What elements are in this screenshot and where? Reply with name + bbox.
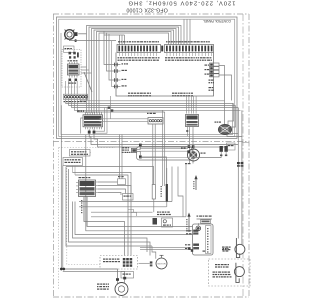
terminal strip TS2 pin labels [165,57,212,61]
buzzer B1 wire down b [227,110,242,244]
wire bus mid 1 [66,100,234,104]
wire CN6 label rot [81,200,82,213]
wire bus top [80,100,224,101]
wire bus lower c [84,197,125,256]
switch SW4 [113,85,127,89]
terminal strip TS2 pin leads [167,53,212,57]
wire M3 from loops [152,246,156,259]
wire divider cross a [119,135,121,179]
connector CN5 left wires [100,119,149,122]
remote P2 [234,263,244,283]
wire CN6 right 4 [98,193,121,196]
wire bundle top 6 [99,33,169,113]
dark pad SB2 [153,218,158,225]
connector CN2 top pins [86,112,102,115]
terminal strip TS2 outline [165,45,214,53]
wire tap into relay box 1 [81,66,87,68]
connector CN3 wire right a [219,66,225,125]
wire bus lower g [79,201,172,203]
buzzer B1 body [218,125,231,135]
label 24WR [157,212,171,216]
connector CN4 third lead [186,127,188,137]
wire mid vert a [171,167,173,202]
wire DS1 pads [188,247,193,252]
connector CN6 label [79,177,91,178]
wire loop lower 1 [73,173,132,256]
board bottom text left [128,93,151,97]
terminal strip TS2 top labels [166,41,210,42]
wire LB2 down b [74,166,76,176]
wire drop group1 e [121,35,123,45]
board bottom text right [172,93,193,97]
wires relay to pin strip [66,81,78,95]
sheet border right outer [248,14,250,297]
wire bus mid 5 [77,100,164,113]
small rect above relay box [64,46,75,52]
wire loop lower 4 [66,167,152,247]
fuse F1 dark bar [166,168,168,207]
wire drop group1 a [104,31,113,65]
wire bus lower d [91,216,186,218]
wire bundle top 2 [89,27,179,113]
wire CN6 down b [86,197,88,227]
connector CN5 label [147,113,156,114]
wire CN6 right 2 [98,186,131,194]
motor M1 inner ring [67,32,72,37]
door switch DS1 stub row A [186,230,198,235]
label hinge [197,216,213,220]
small box HB1 [118,176,126,185]
sheet border right inner [242,14,244,297]
svg-text:OFG-32X C1000: OFG-32X C1000 [126,6,168,12]
title line 1 [127,0,235,6]
wire CN2 pads to bus b [95,108,107,134]
wire tap into relay box 3 [81,72,92,74]
wire loop lower 6 [73,202,148,253]
wire vert mid d [162,110,164,186]
wire DS1 feed a [140,248,189,250]
wire LB2 down a [72,166,74,173]
wire M2 right [192,157,221,159]
wire loop inside box [61,33,233,135]
label box LB1 [70,150,91,157]
terminal strip TS1 pin labels [118,57,160,61]
motor M1 brush ticks [65,30,75,40]
control panel box outer [57,17,238,139]
label box LB2 [63,158,83,166]
motor M3 body [156,258,167,269]
connector CN2 bottom pins [86,127,102,130]
switch SW3 [113,78,126,82]
connector CN3 rows [210,63,220,77]
wire CN8 corner marks [128,210,137,217]
wire bottom junction b [63,271,125,277]
motor M2 body [188,149,200,161]
connector CN4 body [186,115,199,127]
wire LB1 right [90,152,91,154]
control panel label [203,19,231,23]
motor M1 outer ring [65,30,75,40]
wire CN4 into lower [190,148,194,164]
wire hinge to pin [198,223,200,225]
connector CN2 down leads [89,129,94,131]
remote box label2 [213,272,232,278]
sheet border left [53,14,55,297]
diagonal wire [84,72,92,92]
remote box label [215,264,229,268]
wire bus mid 3 [72,100,239,108]
wire drop group1 g [112,41,114,87]
pump M4 body [115,283,128,296]
wire CN4 down b [192,130,194,146]
connector CN4 lower pads [188,145,195,148]
thermistor TH1 outline [152,185,155,200]
pump M4 top lead [118,279,125,284]
thermal fuse TF1 label [122,147,131,153]
terminal strip TS1 pin leads [119,53,156,57]
motor M2 pad [187,150,190,153]
pin strip PS1 labels [64,101,87,102]
connector CN3 wire right b [219,75,232,101]
buzzer B1 wire up a [228,104,234,125]
svg-text:120V, 220-240V 50/60Hz, 3HG: 120V, 220-240V 50/60Hz, 3HG [127,0,235,6]
terminal strip TS1 top labels [118,41,159,42]
pump M4 pads [116,277,126,281]
wire bundle top 1 [87,26,182,114]
buzzer B1 label [215,122,222,123]
thermistor TH1 wires [153,199,155,212]
wire drop ctrl a [183,19,185,44]
connector CN2 loop wire [81,118,83,134]
wire DS1 feed b [140,250,192,251]
wire CN6 down a [83,197,85,222]
svg-text:MOTOR: MOTOR [157,264,166,266]
junction box RB1 [227,143,236,150]
connector small CN7 [220,146,228,158]
connector CN6 body [79,180,96,197]
dotted boundary lower left [59,148,115,291]
motor M3 top tick [160,255,164,257]
relay K1 bottom pins [70,75,78,78]
small box HB2 [123,194,134,201]
dotted boundary pump box [67,168,100,265]
wire tap into relay box 2 [81,69,89,71]
terminal strip TS1 outline [117,45,161,53]
fuse F1 label [161,186,162,197]
junction dot B [63,268,65,270]
pump M4 label [97,284,109,290]
connector CN5 down wires [153,124,155,185]
door switch DS1 earth mark [203,251,206,252]
wire mid vert c [185,164,187,217]
sheet border top [53,13,249,15]
motor M1 terminal pad [75,32,78,36]
buzzer B1 wire down a [230,108,239,239]
heater assembly body [137,147,193,161]
connector CN6 right pins [96,182,99,193]
small box SB1 [162,218,173,227]
wire drop group1 f [124,35,126,45]
switch SW1 [113,63,128,67]
junction dot A [60,268,62,270]
relay K1 top pins [70,62,78,64]
door switch DS1 inner rect [206,226,212,254]
wire mid vert b [178,167,183,217]
board right text [209,80,215,91]
door switch DS1 wires left [192,231,195,235]
wire loop lower 5 [69,169,151,256]
door switch DS1 stub row B [185,244,199,250]
wire left long 1 [60,105,62,269]
wire bottom junction a [61,269,117,278]
wire bus lower e [91,211,153,213]
door switch DS1 pin circle [196,226,201,231]
heater coil lines [140,149,189,158]
connector CN4 bottom pins [190,127,194,130]
remote assy P1 [235,238,245,258]
thermal fuse TF1 pad bottom [139,155,142,158]
motor M3 left pads [150,261,153,266]
remote dashed box [209,259,251,286]
section divider [53,141,249,143]
motor M1 junction dot [75,40,77,42]
connector CN4 junction dot [186,130,188,132]
wire board bottom left down [110,96,112,119]
connector CN2 label [77,111,84,112]
door switch DS1 outline [193,224,214,255]
wire CN2 to lower a [89,134,238,145]
pin strip PS1 outline [64,94,88,99]
terminal strip TS2 bars [166,46,213,52]
wire drop group1 b [107,33,114,72]
control panel box inner [59,19,235,136]
wire M3 left [139,262,150,264]
wire loop lower 2 [75,175,128,256]
relay box dotted outline [62,50,81,88]
wire drop group1 c [109,34,113,80]
wire right bend top [242,141,249,143]
connector CN2 body [83,115,103,127]
wire drop group1 d [119,35,121,45]
thermal fuse TF1 body [132,148,137,152]
relay box parts cluster top [68,52,79,62]
wire divider cross b [121,135,123,179]
buzzer B1 wire up b [231,106,236,128]
connector CN8 label [103,259,120,263]
motor M2 labels [181,148,206,165]
terminal lone [161,46,163,52]
sheet border bottom [53,296,249,298]
thermal fuse TF1 wires [137,147,141,156]
remote assy label [222,247,231,251]
wire bus lower f [79,206,167,208]
wire board to CN4 [187,96,197,114]
wire loop lower 3 [66,167,154,185]
relay K1 body [68,64,80,75]
pin strip PS1 pins [64,96,87,99]
hinge box [201,220,211,223]
earth arrow A2 [186,213,190,233]
wire bus lower b [87,197,193,227]
wire bundle top 3 [92,29,177,114]
wire loop lower 7 [75,202,193,235]
wire bus above group1 [104,34,125,36]
control board outline [116,53,214,97]
wire bus lower a [86,135,193,231]
wire vert mid e [164,112,166,186]
wire TF1 bottom right [142,157,167,184]
connector CN6 left pins [76,183,79,193]
wire left long 2 [62,166,64,270]
connector CN3 labels [205,65,210,75]
wire drop ctrl c [189,19,191,44]
small pads above CN2 [108,107,114,112]
connector pair on right verticals [237,162,243,167]
small box below CN8 [121,272,134,279]
wire CN6 right 3 [98,189,126,194]
svg-text:CONTROL PANEL: CONTROL PANEL [203,19,231,23]
door switch DS1 label right [223,248,229,252]
title line 2 [126,6,168,12]
connector CN2 pad A [88,131,91,134]
wire CN4 down a [189,130,191,146]
wire CN6 right 1 [98,181,118,183]
motor M1 lower lead [70,39,117,40]
wire drop ctrl b [186,19,188,44]
wire bundle top 5 [97,32,172,114]
wire CN2 pads to bus a [95,108,104,132]
connector CN8 body [123,258,132,267]
connector CN5 body [148,118,163,125]
wire bus mid 2 [69,100,236,106]
wire bundle top 4 [94,30,174,113]
wire M2 top [193,145,195,149]
earth arrow A1 [193,175,197,190]
relay box parts cluster bottom [68,79,77,84]
terminal strip TS1 bars [118,46,157,52]
thermal fuse TF1 pad top [139,144,142,147]
dashed box DB1 [100,256,138,270]
motor M1 lead wire [78,33,86,35]
wire CN2 to lower b [94,134,226,147]
switch SW2 [113,69,127,73]
wire TF1 pad up [139,143,141,146]
wire bus mid 4 [74,100,240,111]
connector CN2 pad B [93,131,96,134]
